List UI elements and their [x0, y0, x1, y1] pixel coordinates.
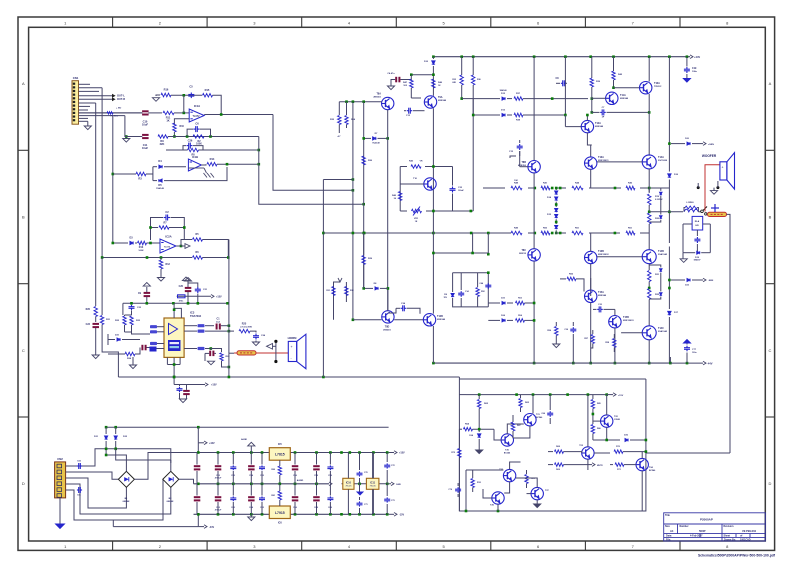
transistor Q19 MJE340 bottom: [423, 314, 446, 326]
resistor R57 1K: [584, 330, 594, 348]
resistor R11 1K: [163, 111, 174, 122]
svg-text:L1/R60: L1/R60: [686, 202, 694, 204]
transistor Q27 BC546: [531, 487, 550, 499]
speaker WOOFER: [720, 153, 735, 189]
svg-text:C2240: C2240: [614, 418, 621, 421]
supply rail +15 top: [194, 451, 389, 454]
svg-text:2N5551: 2N5551: [373, 97, 381, 99]
wire Q24 down: [641, 452, 643, 511]
svg-text:IC10: IC10: [346, 481, 352, 484]
transistor Q18 2N5401: [382, 311, 394, 332]
resistor R52 10K box: [476, 273, 486, 307]
wire Q5 collector emitter: [586, 114, 592, 145]
svg-text:MJE15032: MJE15032: [598, 254, 609, 256]
svg-text:TDA7294: TDA7294: [190, 314, 202, 318]
ground below C22: [92, 333, 99, 359]
wire Q23 emitter collector: [587, 395, 589, 470]
horn input arrow: [267, 344, 276, 350]
svg-text:GND: GND: [396, 484, 401, 486]
bridge B1 label: [122, 498, 130, 503]
vertical main x433.4: [432, 108, 434, 313]
protection top bus: [459, 393, 608, 396]
IC10 pins: [347, 453, 349, 515]
svg-text:VE P99-004: VE P99-004: [742, 529, 757, 533]
wire Q11 Q12: [591, 233, 643, 296]
svg-text:A4: A4: [670, 529, 674, 533]
resistor R34 4.7K vertical: [345, 102, 356, 128]
cap C73 far right: [384, 484, 395, 515]
IC3 bottom pins: [167, 357, 180, 378]
resistor R13 2K: [135, 241, 160, 252]
wire Q4 base: [614, 87, 640, 89]
svg-text:+44V: +44V: [209, 442, 215, 445]
wire Q14 Q15: [614, 309, 651, 364]
svg-text:100n: 100n: [692, 71, 698, 73]
wire IC1A output: [204, 113, 354, 191]
diode LED D25: [469, 413, 481, 442]
capacitor C26 8P: [183, 139, 203, 151]
resistor R7 feedback: [149, 222, 185, 230]
feedback wire row: [171, 94, 202, 113]
ground protection: [534, 504, 541, 508]
svg-text:BC546: BC546: [649, 469, 656, 472]
transistor Q20 BC546: [501, 434, 513, 455]
resistor R12 with ground: [159, 258, 170, 278]
transistor Q25 BC546: [499, 469, 516, 482]
transistor Q7 drv: [585, 156, 610, 169]
vertical x590.7: [590, 145, 592, 157]
svg-text:+15V: +15V: [399, 452, 405, 455]
svg-text:-44V: -44V: [209, 526, 214, 529]
svg-text:RL4148: RL4148: [372, 142, 380, 145]
svg-text:T12B: T12B: [437, 315, 443, 318]
cap bank row2 labels: [215, 506, 333, 512]
capacitor C34 4n7: [388, 302, 420, 314]
plus symbol: [711, 204, 719, 212]
capacitor C2 feedback: [151, 210, 185, 240]
diode R pair row y303: [488, 297, 535, 304]
zener box network: [453, 271, 490, 307]
vertical bus x102.1: [101, 88, 103, 258]
wire bottom bus protection: [465, 504, 500, 512]
protection bus arrow: [607, 393, 624, 397]
svg-text:TL072: TL072: [193, 115, 201, 118]
capacitor C33 100uF: [450, 167, 465, 212]
ground arrow IC3 area: [129, 357, 136, 369]
wire Q22: [593, 395, 607, 440]
capacitor C24 zobel: [250, 331, 266, 342]
rail arrow +44V: [690, 55, 700, 59]
svg-text:4-Feb-2007: 4-Feb-2007: [690, 535, 703, 538]
regulator IC5 L7815: [269, 448, 290, 461]
svg-text:R13: R13: [139, 246, 144, 249]
emitter resistors lower: [648, 264, 660, 326]
svg-text:2N5401: 2N5401: [383, 329, 391, 332]
svg-text:C2: C2: [165, 210, 169, 214]
svg-text:C5: C5: [189, 85, 193, 89]
transistor Q26 BC556: [490, 492, 504, 507]
svg-text:GBU8K: GBU8K: [122, 501, 130, 503]
capacitor C19 rail decoupling: [684, 57, 698, 79]
wires to bias box: [259, 164, 365, 205]
transistor Q14 MJE15033: [609, 316, 635, 328]
svg-text:10uF: 10uF: [142, 146, 148, 150]
diode D10 rail: [424, 57, 435, 96]
svg-text:+44V: +44V: [694, 55, 700, 59]
resistor R33 hang: [452, 57, 473, 100]
red wire fuse to horn: [256, 352, 288, 354]
unregulated -V stub: [113, 514, 214, 529]
svg-text:BC546: BC546: [536, 416, 543, 419]
resistor R16 1K: [161, 88, 171, 97]
rail arrow +15V: [389, 451, 405, 455]
vertical x730 to protection: [729, 224, 731, 453]
fuse F2: [237, 351, 256, 355]
CN1 pin stub wires: [79, 84, 143, 121]
svg-text:79L05: 79L05: [370, 486, 377, 488]
svg-text:L7815: L7815: [275, 453, 285, 457]
IC3 top bus: [123, 302, 229, 315]
relay coil RLA: [692, 216, 703, 230]
svg-text:Date:: Date:: [666, 535, 672, 538]
testpoint resistors pair: [326, 278, 354, 320]
zener D9 15V: [443, 291, 454, 302]
protection wires A: [494, 395, 533, 440]
svg-text:C19: C19: [692, 67, 697, 70]
capacitor C8: [555, 57, 567, 117]
capacitor C4 47u: [387, 72, 411, 86]
transistor Q8 output top: [642, 155, 668, 169]
svg-text:IC2A: IC2A: [165, 235, 171, 239]
resistor R29 45K: [362, 233, 373, 288]
vertical bus x95.7: [95, 103, 97, 306]
wire to fuse: [229, 352, 234, 354]
resistor R47 1K2 vertical: [403, 75, 421, 98]
svg-text:4700uF: 4700uF: [215, 477, 222, 480]
resistor R2 100K: [193, 135, 204, 146]
transistor Q11 drv lower: [585, 250, 610, 264]
svg-text:C26: C26: [188, 139, 193, 143]
svg-text:+15V: +15V: [216, 296, 222, 299]
diode R pair row y320: [488, 314, 535, 322]
ground CN2 filled: [56, 524, 65, 529]
wire fuse left red: [234, 352, 237, 354]
capacitor C1 2u2 output: [216, 318, 231, 330]
svg-text:T11A: T11A: [620, 94, 626, 97]
svg-text:IC1A: IC1A: [194, 104, 200, 108]
unregulated +V stub: [198, 427, 215, 452]
svg-text:OUT-L: OUT-L: [117, 94, 125, 98]
resistor R48 10K row: [511, 180, 522, 190]
left rail protection: [451, 429, 461, 511]
arrow mid protection: [584, 463, 603, 467]
svg-text:MJE340: MJE340: [437, 318, 446, 321]
svg-text:MJE15033: MJE15033: [623, 320, 634, 322]
output inductor L1 parallel R: [684, 202, 698, 212]
bias trimmer box: [400, 165, 473, 212]
diode D13 1N4148: [501, 109, 506, 116]
wire y253 segment: [432, 252, 488, 255]
transistor Q15 output low: [642, 326, 668, 340]
resistor R49 10K row2: [511, 226, 522, 234]
wire mute vertical x323: [322, 178, 354, 377]
fuse F1: [708, 212, 727, 216]
capacitor C9 22uF: [138, 292, 150, 305]
svg-text:Sheet: Sheet: [724, 535, 731, 538]
svg-text:A: A: [22, 81, 25, 86]
connector CN2: [55, 462, 66, 498]
speaker HORN: [288, 334, 306, 369]
cap bank row1 labels: [215, 474, 333, 480]
svg-text:10uF: 10uF: [142, 122, 148, 126]
wire lower row IC2A: [101, 256, 192, 259]
wire diode branch: [146, 167, 153, 181]
svg-text:-SEN: -SEN: [708, 280, 714, 282]
resistor R81 vertical: [271, 484, 281, 500]
row y233 amp: [506, 232, 650, 235]
wire Q18 connections: [380, 287, 389, 311]
capacitor C13 100p: [404, 108, 425, 117]
wire opamp plus input: [174, 119, 189, 124]
svg-text:Number: Number: [680, 525, 689, 528]
wire R11 to opamp: [174, 112, 189, 115]
resistor R73 1K8: [525, 470, 536, 488]
emitter resistor R19 0.22: [648, 169, 663, 213]
emitter resistor R20b 0.22: [648, 213, 660, 250]
svg-text:C20: C20: [179, 285, 184, 288]
IC11 pins: [372, 453, 374, 515]
svg-text:MJE15: MJE15: [519, 253, 527, 255]
svg-text:R10: R10: [180, 125, 185, 128]
transistor Q5 MJE340: [581, 120, 604, 132]
AGND symbol bottom: [248, 514, 255, 520]
capacitor C40 maroon left: [141, 345, 149, 351]
wire R10 to row2: [173, 132, 176, 138]
svg-text:Drawn By:: Drawn By:: [724, 538, 736, 541]
capacitor C35 22u: [593, 304, 615, 312]
IC3 amplifier TDA7294: [164, 318, 184, 357]
resistor R80 vertical: [271, 466, 281, 485]
wire right pins join: [205, 330, 230, 333]
IC3 label: [190, 311, 202, 319]
diode chain bias: [547, 187, 558, 235]
svg-text:R14: R14: [210, 157, 215, 161]
node row below D10: [410, 73, 435, 76]
vertical bus x258.8: [258, 137, 260, 165]
title block: [664, 513, 766, 541]
svg-text:CN2: CN2: [57, 457, 63, 461]
capacitor C7 2p: [592, 107, 651, 119]
vertical Q1 emitter: [387, 110, 389, 311]
left rail x363.7: [362, 102, 365, 289]
ground arrow up near IC2A: [182, 277, 189, 281]
sub regulator IC10: [343, 478, 354, 489]
top rail +V: [432, 55, 690, 58]
resistor R19b 6.8K right: [648, 188, 650, 192]
IC3 right pin resistors: [184, 324, 214, 333]
svg-text:R3: R3: [138, 177, 142, 181]
diode D18 1N4007 right: [669, 357, 672, 364]
transistor Q6 MJE350 left: [518, 161, 540, 173]
svg-text:TIP41C: TIP41C: [654, 85, 662, 88]
CN2 ground drop: [59, 498, 61, 524]
transistor Q23 sense: [579, 445, 594, 459]
svg-text:GBU8K: GBU8K: [166, 501, 174, 503]
resistor R15 47K: [203, 88, 213, 97]
resistor R26 20K vertical: [220, 353, 230, 367]
diode D12 1N4148: [499, 89, 507, 100]
supply rail mid right: [342, 482, 402, 486]
connector CN1: [72, 81, 79, 125]
vertical Q6 to Q10: [533, 173, 536, 364]
sub regulator IC11: [366, 478, 379, 489]
wire row2 middle: [168, 135, 259, 138]
sense diodes lower column: [649, 265, 662, 299]
svg-text:T13A: T13A: [598, 156, 604, 159]
capacitor C5: [188, 85, 194, 99]
resistor R24 47K: [108, 348, 140, 361]
second stage sense wires: [471, 57, 500, 117]
svg-text:IC11: IC11: [370, 481, 376, 484]
resistor R50 47 row2: [541, 227, 550, 234]
svg-text:T14A: T14A: [658, 156, 664, 159]
IC3 top pins: [173, 303, 182, 318]
resistor R63 1K8: [519, 395, 530, 412]
relay drive network: [683, 224, 710, 253]
ground R56: [553, 344, 560, 348]
svg-text:B: B: [769, 215, 772, 220]
svg-text:T16A: T16A: [654, 82, 660, 85]
wire box to rail: [487, 233, 490, 256]
resistor R74 4.7K: [471, 470, 482, 492]
resistor R14 10K: [201, 157, 217, 166]
relay contact: [698, 207, 707, 213]
svg-text:1K: 1K: [166, 119, 169, 123]
resistor R8 100K: [188, 148, 199, 156]
diode D7 across rails: [362, 133, 389, 145]
capacitor C44 47uF: [479, 282, 491, 289]
cap bank row1: [194, 453, 334, 484]
svg-text:2.7ohm/5W: 2.7ohm/5W: [240, 326, 252, 328]
diode D21b sense bottom: [668, 278, 714, 286]
wire row3: [166, 149, 260, 152]
svg-text:Schematics\500P\2000AP\PWer-50: Schematics\500P\2000AP\PWer-500-500-100.…: [698, 554, 776, 558]
svg-text:+ NO: + NO: [116, 108, 121, 110]
resistor R5 10K: [193, 233, 229, 258]
svg-text:MUTE: MUTE: [597, 465, 603, 467]
cap C72 far right: [384, 453, 395, 484]
resistor R22 22K vertical: [115, 315, 126, 332]
wire Q7 Q8 connect: [591, 162, 643, 188]
rail arrow -15V: [389, 513, 405, 517]
svg-text:D4: D4: [158, 159, 162, 163]
svg-text:1N4007: 1N4007: [693, 259, 701, 262]
resistor R9 22K: [158, 135, 168, 146]
svg-text:CN1: CN1: [73, 76, 79, 80]
resistor R38 62K: [507, 113, 565, 121]
supply top bus: [105, 426, 389, 429]
wire bias to x473: [472, 99, 474, 211]
wire Q13: [589, 278, 592, 364]
svg-text:T14C: T14C: [658, 327, 664, 330]
ground below R12: [157, 278, 164, 282]
svg-text:T15A: T15A: [598, 291, 604, 294]
ground below C19: [683, 79, 690, 83]
diode D19 relay: [693, 251, 701, 261]
trimmer VR1 1K: [412, 207, 422, 224]
svg-text:500P: 500P: [699, 529, 706, 533]
ground arrow near R16: [152, 95, 160, 101]
regulator IC6 L7915: [269, 506, 290, 519]
bridge rectifier B1: [118, 471, 134, 487]
wire signal bus y233: [323, 232, 505, 235]
mid rail arrow: [297, 479, 332, 486]
svg-text:MJE340: MJE340: [438, 99, 447, 102]
svg-text:IC5: IC5: [278, 443, 282, 446]
transistor Q12 output bottom: [642, 250, 668, 264]
resistor R51 2K row2: [572, 227, 583, 234]
svg-text:T15B: T15B: [623, 316, 629, 319]
transistor Q13 MJE340 mid: [585, 290, 607, 302]
resistor R23 100K vertical: [125, 315, 151, 334]
resistor RL 2.7ohm 5W: [229, 323, 253, 333]
svg-text:of: of: [740, 535, 742, 538]
svg-text:R12: R12: [166, 263, 171, 266]
bridge B2 label: [166, 498, 174, 503]
svg-text:MJE340: MJE340: [598, 294, 607, 297]
wire bottom left amp: [353, 319, 423, 321]
svg-text:2SA1943: 2SA1943: [658, 330, 668, 333]
base wire Q1: [339, 100, 381, 103]
protection box outline: [459, 377, 646, 511]
resistor R40 56 vertical: [392, 192, 402, 201]
svg-text:TL072: TL072: [164, 247, 171, 249]
red wire to woofer: [705, 165, 720, 212]
arrow up above C77: [683, 340, 690, 344]
ground hatch IC1B: [188, 168, 214, 178]
svg-text:C4 47u: C4 47u: [387, 72, 395, 75]
transistor Q21 BC546: [524, 414, 543, 426]
diode D16 1N4007: [668, 174, 679, 243]
supply rail -15 bottom: [194, 513, 389, 516]
vertical bus x228.9: [228, 240, 231, 378]
resistor R21 left vertical: [100, 258, 110, 341]
rail arrow -44V: [670, 361, 712, 365]
svg-text:1N4148: 1N4148: [499, 89, 507, 92]
resistor R35 10K vertical: [330, 102, 341, 138]
svg-text:R15: R15: [205, 88, 210, 92]
svg-text:+15V: +15V: [211, 384, 217, 387]
diode D3 input: [112, 237, 134, 245]
svg-text:BC546: BC546: [504, 452, 511, 455]
resistor R64 2K input: [459, 423, 494, 431]
svg-text:-44V: -44V: [707, 361, 713, 365]
svg-text:D5: D5: [158, 183, 162, 187]
svg-text:D: D: [22, 481, 25, 486]
right edge vertical supply: [372, 453, 374, 515]
ground below C24: [252, 342, 259, 346]
bridge rectifier B2: [163, 471, 179, 487]
svg-text:IC3: IC3: [190, 311, 195, 315]
wire plus15 arrow top: [177, 278, 222, 303]
vertical x669.4 upper: [668, 57, 670, 172]
wire IC3 left loop: [102, 340, 118, 377]
ground woofer: [710, 188, 717, 195]
wire cap to R11: [148, 112, 162, 114]
ground below CN1: [84, 121, 91, 129]
svg-text:0.22/5W: 0.22/5W: [655, 199, 663, 201]
relay contact node: [705, 213, 707, 215]
